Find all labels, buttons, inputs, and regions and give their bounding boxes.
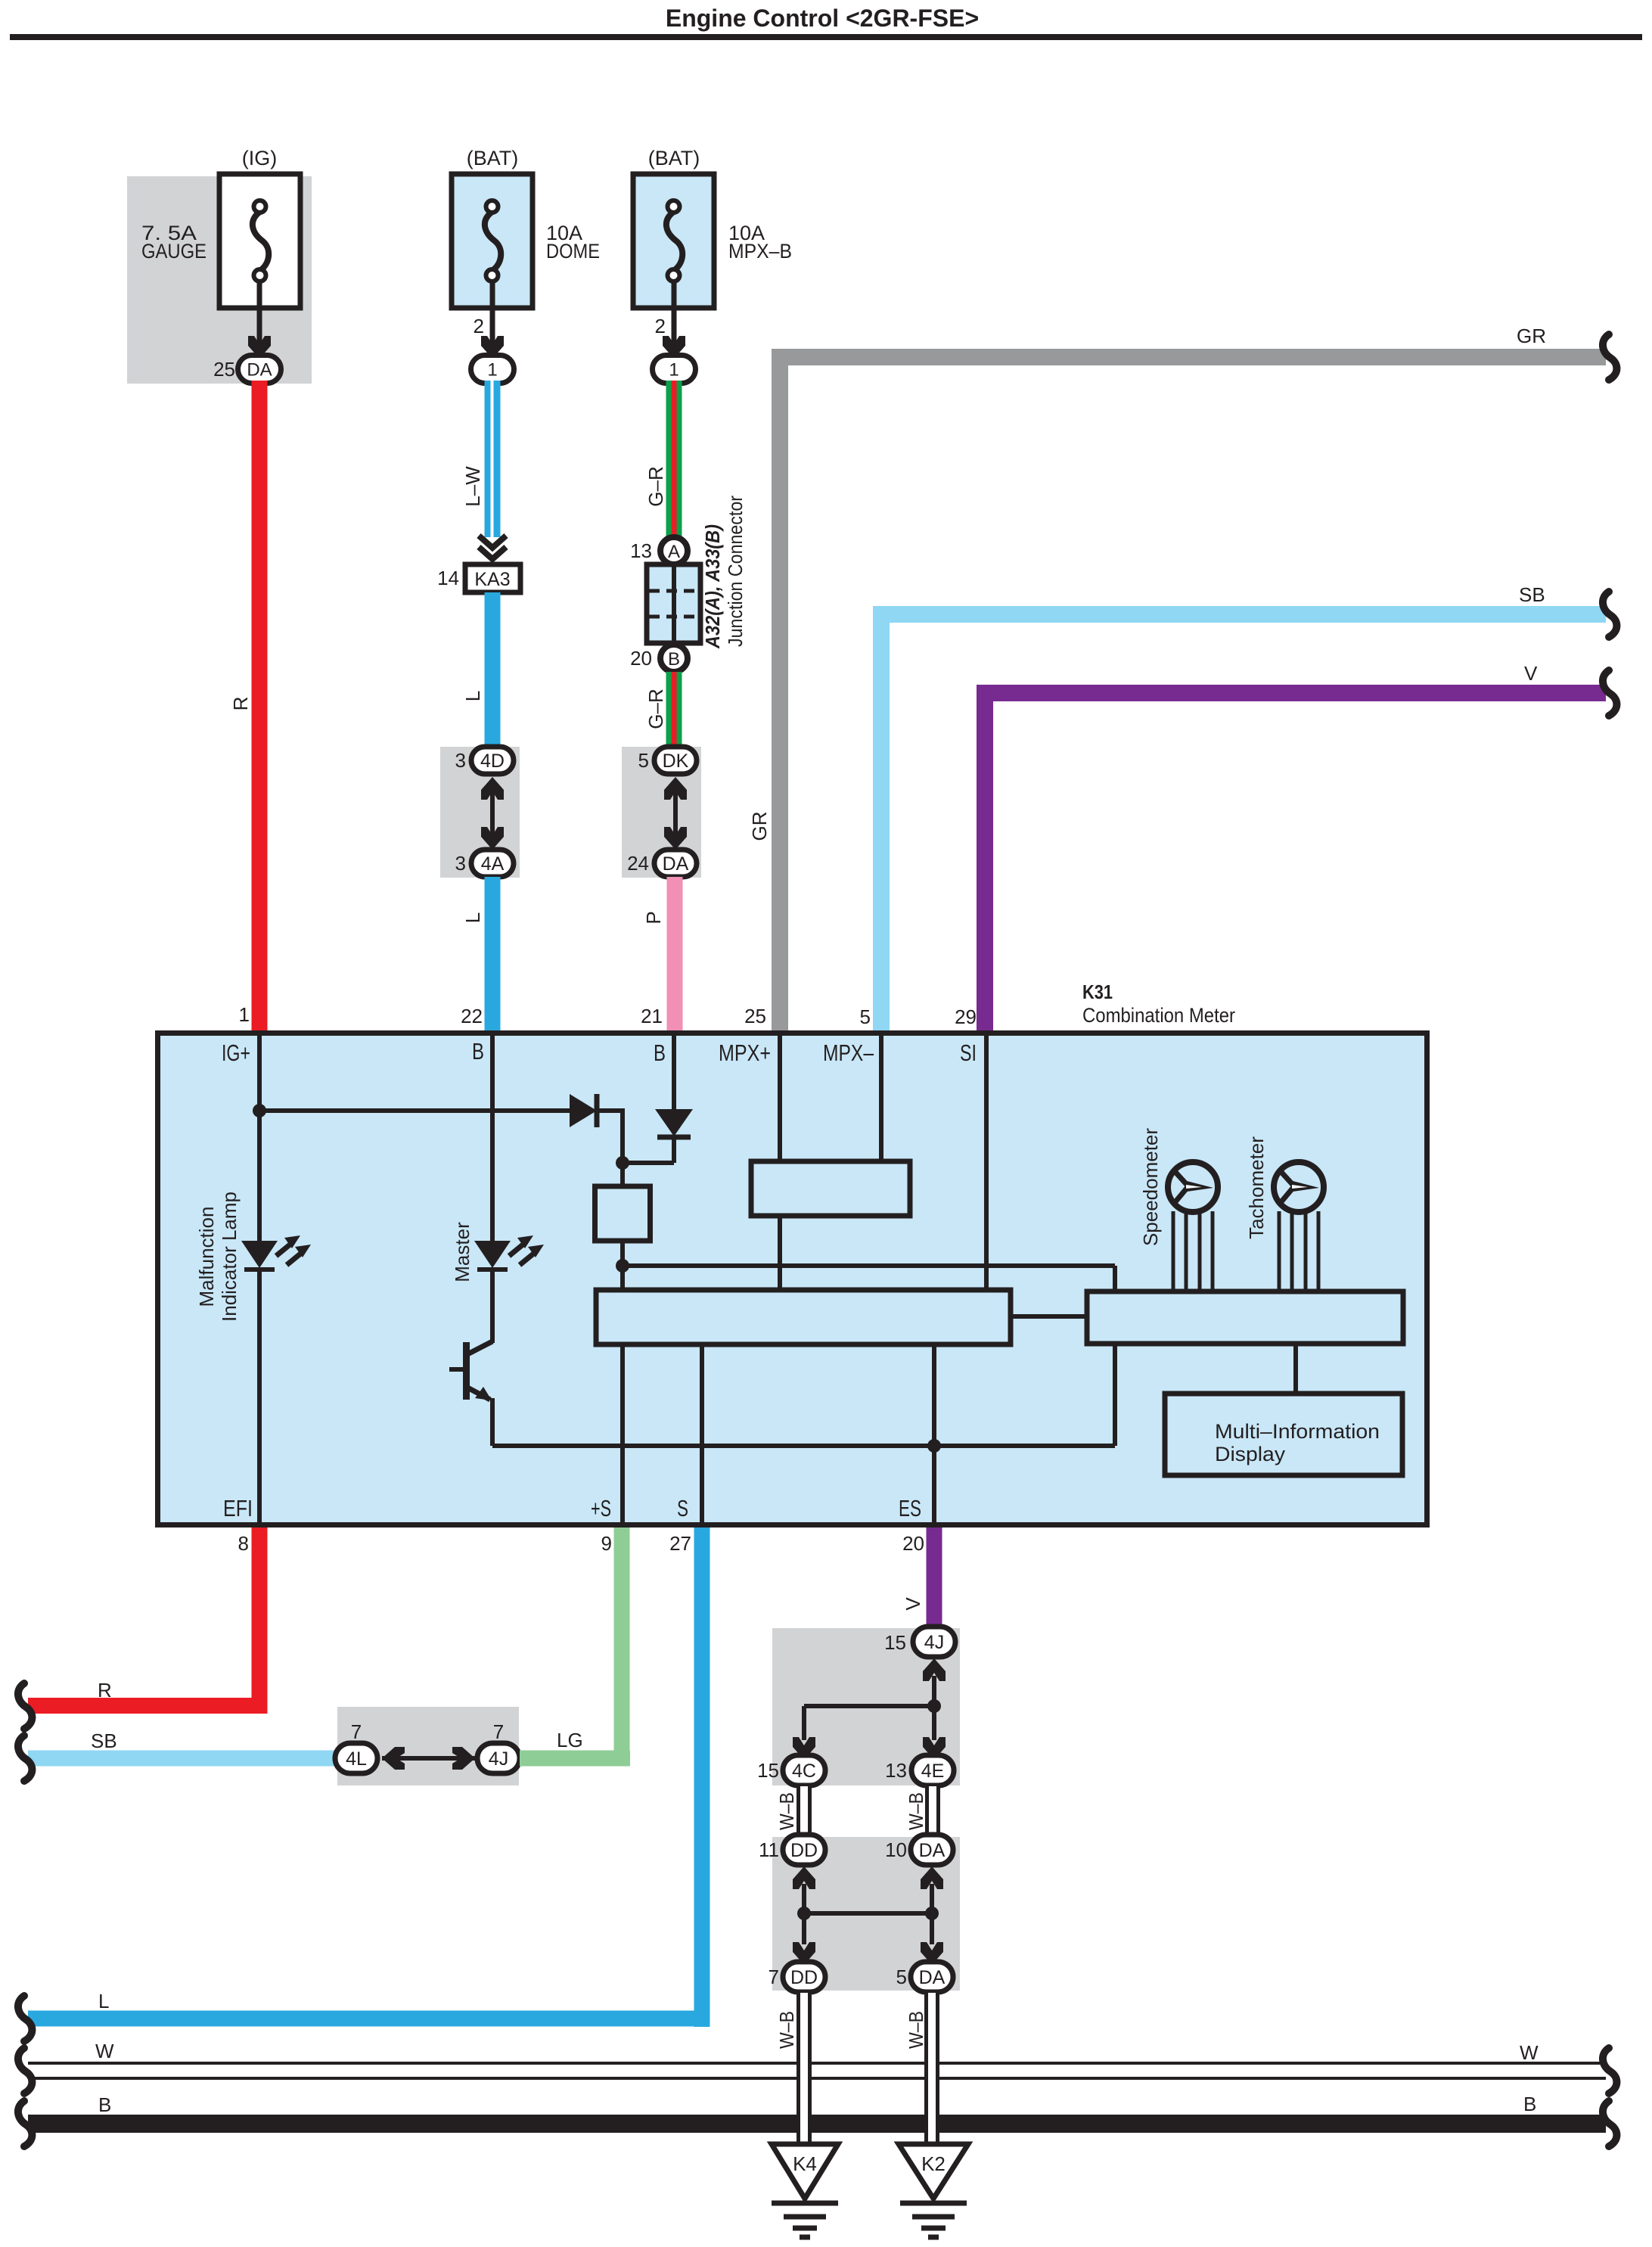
connector 14 KA3: [437, 564, 520, 592]
gray box connectors 4L-4J: [337, 1707, 519, 1785]
break symbol B left: [18, 2101, 32, 2146]
label V right: [1524, 662, 1538, 685]
wire pin22 to master lamp: [490, 1035, 495, 1241]
junction connector pin 20 B: [630, 645, 688, 672]
pin label +S: [591, 1495, 611, 1521]
svg-text:11: 11: [759, 1838, 779, 1861]
arrow down into 4E: [923, 1737, 946, 1760]
wire 4J to node: [932, 1676, 936, 1740]
wire W-B DA to K2 ground: [924, 1993, 939, 2147]
svg-text:Tachometer: Tachometer: [1245, 1136, 1268, 1239]
svg-text:Master: Master: [451, 1222, 474, 1282]
fuse F3 10A MPX-B (BAT): [633, 174, 714, 308]
svg-text:2: 2: [474, 315, 484, 337]
svg-text:Speedometer: Speedometer: [1139, 1128, 1162, 1246]
svg-text:W–B: W–B: [905, 1792, 927, 1830]
label 7.5A GAUGE: [141, 222, 206, 263]
wire G-R green/red lower: [666, 672, 682, 747]
pin number 9: [601, 1532, 612, 1555]
gray box connectors DK-DA: [622, 747, 701, 878]
wire pin5 to mpx block: [879, 1035, 883, 1161]
wire P pink DA to pin21: [667, 877, 683, 1030]
arrow into connector 1 dome: [481, 336, 504, 359]
junction connector pin 13 A: [630, 537, 688, 564]
svg-text:W–B: W–B: [775, 1792, 798, 1830]
svg-text:K2: K2: [921, 2152, 946, 2175]
svg-text:4E: 4E: [921, 1761, 945, 1782]
label L vertical upper: [461, 691, 484, 701]
svg-text:4A: 4A: [481, 853, 505, 875]
svg-text:MPX–: MPX–: [823, 1040, 874, 1066]
label GR vertical: [748, 812, 771, 841]
svg-text:15: 15: [757, 1759, 779, 1782]
pin label EFI: [223, 1495, 253, 1521]
svg-text:7: 7: [493, 1720, 504, 1743]
label W-B 4: [905, 2011, 927, 2049]
label G-R vertical upper: [644, 466, 667, 506]
svg-text:1: 1: [487, 360, 497, 381]
svg-text:4J: 4J: [489, 1748, 508, 1770]
svg-text:B: B: [654, 1040, 666, 1066]
wire R red pin8 to left: [28, 1528, 268, 1714]
connector 3 4D: [455, 747, 514, 774]
junction connector A32(A) A33(B) box: [647, 564, 700, 643]
svg-text:W–B: W–B: [905, 2011, 927, 2049]
svg-text:W: W: [1520, 2041, 1539, 2064]
svg-text:S: S: [677, 1495, 688, 1521]
label SB right: [1519, 583, 1545, 606]
label 10A MPX-B: [728, 222, 792, 263]
pin number 5: [860, 1005, 871, 1028]
combination meter box K31: [158, 1033, 1427, 1525]
label (BAT) dome: [467, 147, 519, 169]
svg-text:7: 7: [769, 1966, 779, 1988]
svg-text:K31: K31: [1082, 981, 1113, 1003]
label R lower: [98, 1679, 112, 1702]
label W-B 3: [775, 2011, 798, 2049]
svg-text:K4: K4: [793, 2152, 817, 2175]
break symbol R: [18, 1683, 32, 1729]
svg-text:4L: 4L: [346, 1748, 367, 1770]
label A32(A) A33(B): [701, 524, 724, 649]
malfunction indicator lamp LED: [241, 1235, 311, 1522]
label Master: [451, 1222, 474, 1282]
arrows between 4L and 4J: [382, 1747, 475, 1770]
svg-text:W–B: W–B: [775, 2011, 798, 2049]
svg-text:LG: LG: [557, 1729, 583, 1751]
svg-text:3: 3: [455, 852, 466, 875]
pin number 25: [744, 1005, 766, 1027]
break symbol V: [1603, 670, 1616, 716]
wire ES pin20 to cpu box: [932, 1344, 936, 1522]
label Malfunction Indicator Lamp: [195, 1192, 241, 1322]
svg-text:GAUGE: GAUGE: [141, 240, 206, 263]
connector 5 DA: [896, 1962, 953, 1992]
label P vertical: [642, 911, 665, 924]
label W right: [1520, 2041, 1539, 2064]
arrow into DA: [248, 336, 271, 359]
label L vertical lower: [461, 912, 484, 923]
diode D1 right-pointing: [570, 1094, 597, 1127]
connector 15 4C: [757, 1755, 825, 1785]
svg-text:(BAT): (BAT): [467, 147, 519, 169]
label Speedometer: [1139, 1128, 1162, 1246]
wire pin21 down: [672, 1035, 676, 1109]
svg-text:13: 13: [630, 539, 652, 562]
cpu box left: [596, 1290, 1011, 1344]
svg-text:MPX+: MPX+: [719, 1040, 771, 1066]
svg-text:R: R: [229, 697, 252, 711]
connector 5 DK: [638, 747, 697, 774]
svg-text:Junction Connector: Junction Connector: [724, 496, 747, 647]
svg-text:DA: DA: [663, 853, 689, 875]
svg-text:14: 14: [437, 567, 459, 589]
connector 7 4J: [477, 1720, 520, 1773]
diode D2 down-pointing: [655, 1109, 693, 1137]
connector 1 mpx: [653, 356, 696, 384]
wire GR gray: [772, 349, 1606, 1030]
wire emitter to driver box: [492, 1344, 1115, 1446]
wire SB light blue: [873, 606, 1606, 1030]
svg-text:KA3: KA3: [474, 569, 510, 590]
arrow into connector 1 mpx: [663, 336, 685, 359]
wire pin1 to MIL: [257, 1035, 262, 1241]
connector 7 4L: [335, 1720, 377, 1773]
svg-text:Display: Display: [1215, 1443, 1286, 1465]
svg-text:1: 1: [669, 360, 678, 381]
label W left: [95, 2040, 114, 2062]
svg-text:13: 13: [885, 1759, 907, 1782]
svg-text:20: 20: [630, 647, 652, 670]
svg-text:V: V: [902, 1597, 924, 1611]
label Tachometer: [1245, 1136, 1268, 1239]
pin number 29: [955, 1005, 977, 1028]
svg-text:L: L: [98, 1990, 109, 2012]
wire gauge box to MID: [1293, 1344, 1298, 1394]
node above resistor: [616, 1156, 629, 1170]
break symbol SB lower: [18, 1736, 32, 1781]
svg-text:5: 5: [896, 1966, 907, 1988]
double chevron splice: [479, 536, 506, 559]
label L lower: [98, 1990, 109, 2012]
svg-text:G–R: G–R: [644, 688, 667, 729]
arrow up into 4J: [923, 1658, 946, 1681]
break symbol W left: [18, 2048, 32, 2093]
pin number 22: [461, 1005, 483, 1027]
gauge driver box right: [1087, 1291, 1403, 1344]
arrows between 4D and 4A: [481, 777, 504, 850]
svg-text:SI: SI: [960, 1040, 977, 1066]
svg-text:Combination Meter: Combination Meter: [1082, 1004, 1235, 1027]
label R vertical: [229, 697, 252, 711]
arrow down into DA 5: [921, 1942, 943, 1965]
svg-text:DA: DA: [247, 360, 272, 381]
svg-text:20: 20: [902, 1532, 924, 1555]
label L-W vertical: [461, 466, 484, 507]
pin label S: [677, 1495, 688, 1521]
svg-text:29: 29: [955, 1005, 977, 1028]
wire V purple pin20 to 4J: [927, 1528, 942, 1627]
connector 13 4E: [885, 1755, 954, 1785]
svg-text:4D: 4D: [480, 751, 505, 772]
wire DD chain: [802, 1884, 806, 1944]
wire L blue 4A to pin22: [485, 877, 501, 1030]
svg-text:21: 21: [641, 1005, 663, 1027]
svg-text:DA: DA: [919, 1840, 946, 1861]
svg-text:EFI: EFI: [223, 1495, 253, 1521]
resistor block: [595, 1186, 651, 1241]
svg-text:8: 8: [238, 1532, 249, 1555]
wire node to 4C branch: [804, 1706, 934, 1740]
connector 25 DA: [213, 356, 281, 384]
svg-text:22: 22: [461, 1005, 483, 1027]
svg-text:IG+: IG+: [222, 1040, 250, 1066]
svg-text:L–W: L–W: [461, 466, 484, 507]
wire W white bus: [28, 2063, 1606, 2078]
MPX transceiver block: [751, 1161, 910, 1216]
label W-B 2: [905, 1792, 927, 1830]
connector 10 DA: [885, 1835, 953, 1865]
pin number 21: [641, 1005, 663, 1027]
wire fuse1 to connector DA: [257, 282, 262, 344]
connector 24 DA: [627, 850, 697, 877]
wire fuse3 to connector 1: [672, 282, 677, 344]
node on IG+ line: [253, 1104, 266, 1117]
ground K4: [772, 2144, 838, 2237]
svg-text:G–R: G–R: [644, 466, 667, 506]
svg-text:B: B: [668, 649, 680, 670]
wire diode D2 to node: [623, 1137, 674, 1163]
gray box connectors 4D-4A: [440, 747, 520, 878]
wire V purple: [977, 685, 1606, 1030]
wire W-B DD to K4 ground: [796, 1993, 812, 2147]
wire B black bus: [28, 2115, 1606, 2133]
svg-text:L: L: [461, 691, 484, 701]
arrow down into 4C: [793, 1737, 815, 1760]
pin number 20: [902, 1532, 924, 1555]
pin label MPX-: [823, 1040, 874, 1066]
connector 1 dome: [471, 356, 514, 384]
pin number 1: [239, 1003, 250, 1026]
svg-text:10: 10: [885, 1838, 907, 1861]
svg-text:9: 9: [601, 1532, 612, 1555]
svg-text:B: B: [472, 1038, 484, 1064]
svg-text:24: 24: [627, 852, 649, 875]
wire R red vertical fuse1 to pin1: [252, 381, 268, 1030]
svg-text:27: 27: [669, 1532, 691, 1555]
svg-text:25: 25: [744, 1005, 766, 1027]
wire W-B 4E to DA: [925, 1786, 940, 1835]
svg-text:R: R: [98, 1679, 112, 1702]
gray service box around fuse GAUGE: [127, 176, 312, 384]
master warning LED: [474, 1235, 544, 1270]
svg-text:SB: SB: [91, 1730, 117, 1752]
fuse F2 10A DOME (BAT): [452, 174, 533, 308]
transistor Q1: [449, 1268, 492, 1446]
svg-text:Engine Control <2GR-FSE>: Engine Control <2GR-FSE>: [666, 5, 979, 32]
top rule: [10, 34, 1642, 40]
pin label IG+: [222, 1040, 250, 1066]
label B left: [98, 2093, 111, 2116]
gray box connectors DD-DA ground: [772, 1837, 960, 1991]
label Junction Connector: [724, 496, 747, 647]
svg-text:B: B: [1523, 2093, 1536, 2115]
pin number 27: [669, 1532, 691, 1555]
svg-text:15: 15: [884, 1631, 906, 1654]
label 10A DOME: [546, 222, 600, 263]
title: Engine Control <2GR-FSE>: [666, 5, 979, 32]
pin label ES: [899, 1495, 921, 1521]
arrow up into DA: [921, 1866, 943, 1889]
label V vertical: [902, 1597, 924, 1611]
wire S pin27 up to cpu box: [700, 1344, 704, 1522]
node below resistor: [616, 1259, 629, 1273]
wire mpx block to cpu box: [778, 1216, 782, 1290]
wire DA chain: [930, 1884, 934, 1944]
tachometer gauge: [1274, 1162, 1324, 1291]
wire between nodes: [804, 1911, 932, 1916]
svg-text:DA: DA: [919, 1967, 946, 1988]
svg-text:5: 5: [638, 749, 649, 772]
node on ES line: [927, 1439, 941, 1453]
svg-text:4J: 4J: [924, 1632, 944, 1653]
gray box connectors 4J-4C-4E: [772, 1628, 960, 1785]
fuse F1 7.5A GAUGE (IG): [219, 174, 300, 308]
ground K2: [899, 2144, 968, 2237]
svg-text:4C: 4C: [792, 1761, 816, 1782]
pin label SI: [960, 1040, 977, 1066]
svg-text:B: B: [98, 2093, 111, 2116]
wire pin25 to mpx block: [778, 1035, 782, 1161]
label SB lower: [91, 1730, 117, 1752]
break symbol B right: [1603, 2101, 1616, 2146]
connector 3 4A: [455, 850, 514, 877]
svg-text:3: 3: [455, 749, 466, 772]
svg-text:MalfunctionIndicator Lamp: MalfunctionIndicator Lamp: [195, 1192, 241, 1322]
break symbol W right: [1603, 2048, 1616, 2093]
wire L blue KA3 to 4D: [485, 592, 501, 747]
pin label B 21: [654, 1040, 666, 1066]
svg-text:DOME: DOME: [546, 240, 600, 263]
svg-text:A32(A), A33(B): A32(A), A33(B): [701, 524, 724, 649]
svg-text:MPX–B: MPX–B: [728, 240, 792, 263]
svg-text:SB: SB: [1519, 583, 1545, 606]
svg-text:Multi–Information: Multi–Information: [1215, 1420, 1380, 1443]
pin label MPX+: [719, 1040, 771, 1066]
svg-text:GR: GR: [1517, 325, 1546, 347]
wire between cpu and gauge box: [1011, 1314, 1087, 1319]
node DA chain: [925, 1907, 939, 1920]
svg-text:7: 7: [351, 1720, 362, 1743]
wire SB to 4L: [28, 1751, 337, 1767]
svg-text:(IG): (IG): [242, 147, 278, 169]
svg-text:A: A: [668, 542, 680, 562]
label K31 Combination Meter: [1082, 981, 1235, 1027]
connector 15 4J: [884, 1627, 955, 1657]
wire L-W blue/white: [485, 381, 501, 537]
svg-text:DD: DD: [790, 1967, 818, 1988]
svg-text:L: L: [461, 912, 484, 923]
node DD chain: [797, 1907, 811, 1920]
label (IG): [242, 147, 278, 169]
pin label B 22: [472, 1038, 484, 1064]
svg-text:W: W: [95, 2040, 114, 2062]
svg-text:P: P: [642, 911, 665, 924]
arrow down into DD 7: [793, 1942, 815, 1965]
wire resistor to +S pin9: [620, 1241, 625, 1522]
svg-text:(BAT): (BAT): [648, 147, 700, 169]
break symbol SB: [1603, 592, 1616, 637]
pin number 8: [238, 1532, 249, 1555]
wire IG+ node to diode: [259, 1108, 570, 1113]
break symbol GR: [1603, 334, 1616, 380]
label W-B 1: [775, 1792, 798, 1830]
node below 4J: [927, 1699, 941, 1713]
wire L blue pin27 to left: [28, 1528, 710, 2027]
multi-information display box: [1165, 1394, 1402, 1475]
connector 7 DD: [769, 1962, 825, 1992]
svg-text:5: 5: [860, 1005, 871, 1028]
svg-text:1: 1: [239, 1003, 250, 1026]
pin 2 dome: [474, 315, 484, 337]
label G-R vertical lower: [644, 688, 667, 729]
arrows between DK and DA: [664, 777, 687, 850]
svg-text:25: 25: [213, 358, 235, 381]
svg-text:2: 2: [655, 315, 666, 337]
label B right: [1523, 2093, 1536, 2115]
wire pin29 SI to cpu box: [984, 1035, 989, 1290]
svg-text:V: V: [1524, 662, 1538, 685]
wire W-B 4C to DD: [796, 1786, 812, 1835]
wire node to gauge box: [623, 1266, 1115, 1291]
svg-text:GR: GR: [748, 812, 771, 841]
svg-text:DD: DD: [790, 1840, 818, 1861]
speedometer gauge: [1168, 1162, 1218, 1291]
pin 2 mpx: [655, 315, 666, 337]
break symbol L lower: [18, 1996, 32, 2041]
wire LG green: [520, 1528, 630, 1767]
label LG: [557, 1729, 583, 1751]
connector 11 DD: [759, 1835, 825, 1865]
label GR right: [1517, 325, 1546, 347]
wire diode to corner: [597, 1108, 623, 1186]
arrow up into DD: [793, 1866, 815, 1889]
svg-text:DK: DK: [663, 751, 689, 772]
wire G-R green/red upper: [666, 381, 682, 538]
svg-text:ES: ES: [899, 1495, 921, 1521]
wire fuse2 to connector 1: [490, 282, 495, 344]
label (BAT) mpx: [648, 147, 700, 169]
svg-text:+S: +S: [591, 1495, 611, 1521]
